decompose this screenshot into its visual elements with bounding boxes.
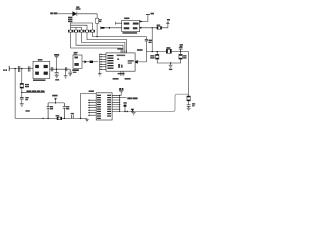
junction dot (152, 51, 153, 52)
node VBB_AO label (50, 12, 53, 14)
IC1 (U1 top MCU) (106, 53, 135, 71)
wire (188, 101, 190, 105)
wire mid bus and right rail (146, 52, 188, 96)
power flag +5V (146, 14, 150, 16)
K1 pads (74, 57, 78, 66)
K1 label below (72, 69, 79, 71)
node junction dot (96, 36, 97, 37)
net label SW_SENSE (120, 97, 127, 99)
junction dot (152, 27, 153, 28)
U3 label below (123, 32, 138, 34)
IC1 left pin name bars (107, 55, 113, 69)
ground under C5 (64, 71, 68, 78)
diode D2 value label (76, 6, 79, 8)
IC1 right inner text (128, 60, 134, 61)
wire to power flag VBB (162, 23, 168, 27)
resistor R3 (vertical on rail) (96, 18, 99, 23)
ground (169, 63, 173, 68)
IC2 (U2 bottom MCU) (96, 93, 112, 120)
resistor network RP1 labels (68, 17, 72, 19)
power module U3 (box2 top middle) (122, 20, 140, 31)
junction dot (56, 69, 57, 70)
wire D3 down (124, 107, 126, 112)
IC2 right pin wires (112, 95, 120, 111)
diode D2 (73, 12, 77, 16)
C12 label (66, 106, 69, 108)
junction dot (21, 92, 22, 93)
R6 label (183, 55, 186, 56)
PS1 pads (35, 65, 48, 75)
off-page arrow (108, 27, 110, 29)
connector J2 arrows (left of IC1) (98, 54, 100, 71)
flag label (167, 19, 170, 21)
wire (58, 13, 73, 15)
power module PS1 (box1) (33, 61, 50, 78)
wire (76, 32, 123, 53)
R3 value label (99, 19, 102, 20)
wire (21, 99, 23, 104)
arrow on upper right pin (140, 21, 142, 23)
LED D6 (131, 109, 135, 112)
IC1 inner text P (117, 58, 119, 60)
IC1 pin number smudge above (117, 48, 123, 49)
wire (96, 23, 98, 36)
wire (21, 88, 23, 97)
capacitor C10 (187, 105, 191, 107)
ferrite bead FB2 (101, 27, 105, 29)
resistor R5 (left pulldown) (156, 52, 158, 55)
bead pin bar (100, 26, 102, 29)
arrow on lower right pin (140, 27, 142, 29)
IC2 top-left label (89, 90, 94, 92)
capacitor C6 (20, 98, 24, 99)
ground (187, 108, 191, 110)
resistor RP1b (74, 30, 79, 32)
capacitor C1 (on input wire) (18, 66, 19, 72)
junction dot (157, 51, 158, 52)
diode D1 label (157, 25, 161, 26)
wire joining pulldown bottoms (157, 59, 180, 63)
R1 label (25, 84, 29, 85)
C6 label (25, 97, 28, 98)
junction dot (80, 118, 81, 119)
C16 label (73, 72, 77, 73)
capacitor C7 (series on rail) (145, 39, 148, 41)
U3 label above (124, 18, 129, 20)
box3 connector K1 (mid left) (73, 55, 82, 68)
net label RESET (26, 90, 31, 92)
input jack J1 label (3, 69, 5, 71)
capacitor C4 (55, 69, 59, 74)
junction dot (14, 68, 15, 69)
IC1 bottom inner glyphs (118, 64, 120, 68)
arrow right (84, 60, 87, 63)
+5V power arrow (caps block) (52, 95, 57, 97)
resistor RP1a (68, 30, 73, 32)
K1 label above (74, 52, 78, 53)
ground label (55, 79, 59, 81)
C11 label (50, 106, 53, 108)
diode D3 label (123, 102, 126, 104)
capacitor C7 label (149, 40, 152, 41)
resistor R6 (right pulldown) (180, 52, 182, 55)
wire output node (50, 68, 70, 70)
PS1 label below (33, 79, 45, 81)
IC1 top inner text (117, 55, 126, 57)
resistor RP1e (90, 30, 95, 32)
gnd return wire (bottom rail) (15, 117, 87, 119)
resistor RP1d (85, 30, 90, 32)
wire input (9, 68, 33, 70)
wire K1 to connector (82, 61, 98, 63)
diode D1 (series) (157, 27, 162, 30)
ground under connector (98, 71, 102, 76)
FB1 label (56, 115, 60, 117)
R5 label (150, 55, 154, 56)
resistor R7 on rail (187, 96, 190, 101)
wire reset net (22, 91, 45, 93)
capacitor C11 (electrolytic left) (47, 103, 50, 119)
junction dot (170, 62, 171, 63)
power flag VBB (166, 22, 169, 23)
PS1 label above (38, 59, 43, 61)
capacitor C9 above right dot (179, 48, 183, 52)
C13 label (71, 113, 74, 115)
ground (55, 75, 59, 77)
capacitor C5 (65, 67, 66, 71)
ground (20, 104, 24, 106)
wire vertical up from rail (81, 94, 97, 119)
capacitor C2 (28, 66, 30, 71)
C9 label (180, 44, 183, 45)
wire (87, 32, 127, 53)
resistor RP1c (79, 30, 84, 32)
stub labels (113, 78, 119, 80)
IC2 left pin wires with arrows (90, 100, 97, 115)
capacitor C12 (electrolytic right) (63, 103, 66, 119)
junction dot (127, 111, 128, 112)
wire long run to right rail (93, 32, 147, 39)
wire to ground (56, 74, 58, 75)
IC1 bottom label (118, 73, 125, 75)
wire (77, 14, 97, 18)
capacitor C13 on rail (72, 115, 74, 118)
crystal Y1 (119, 88, 123, 90)
wire rail down to IC1 pin (138, 41, 147, 62)
input jack J1 pin (8, 66, 10, 71)
junction dot (124, 111, 125, 112)
power flag +5V out (54, 54, 59, 56)
component FB1 on rail (57, 117, 62, 120)
junction dot (55, 102, 56, 103)
wire from bottom run up to rail (175, 94, 189, 109)
series component L1 on bus (166, 49, 171, 53)
wire (188, 106, 190, 108)
wire (82, 32, 125, 53)
wire U3 left pin upper (116, 22, 122, 25)
net label GND (25, 110, 29, 112)
ground at rail end (85, 118, 89, 122)
wire cap top bus (48, 102, 64, 104)
diode D3 (124, 105, 127, 107)
bead FB3 (90, 61, 93, 63)
right pin bus (119, 95, 121, 111)
reset rail (21, 69, 23, 84)
resistor R1 (20, 83, 23, 88)
gnd return wire (left vertical) (14, 69, 16, 119)
wire bottom run (120, 110, 175, 112)
IC1 bottom stubs to crystal (121, 71, 123, 76)
LED ground (132, 112, 136, 115)
junction dot (reset tap) (21, 68, 22, 69)
C10 label (192, 103, 195, 104)
junction dot (47, 118, 48, 119)
ground label (169, 69, 172, 71)
wire U3 right pin lower (139, 27, 157, 29)
wire bus fanout to resistor tops (71, 23, 93, 30)
wire crystal to IC2 (112, 92, 121, 96)
wire from dot down to bus (151, 28, 153, 52)
wire nested runs to IC1 top pins (71, 32, 122, 53)
diode D4 at IC1 right pin (134, 60, 137, 63)
net label UPL (137, 49, 143, 51)
IC2 right pin bars (107, 95, 111, 117)
junction dot (180, 51, 181, 52)
U3 internal pads (124, 23, 139, 30)
wire U3 left pin lower with off-page arrow (105, 27, 122, 29)
capacitor C3 (output) (51, 67, 53, 71)
wire U3 right pin upper to +5V flag (139, 15, 148, 22)
junction dot (64, 118, 65, 119)
capacitor C16 hanging (68, 69, 72, 76)
IC2 left pin bars (97, 95, 101, 119)
connector pin stubs (101, 54, 107, 69)
L1 label (166, 47, 170, 49)
